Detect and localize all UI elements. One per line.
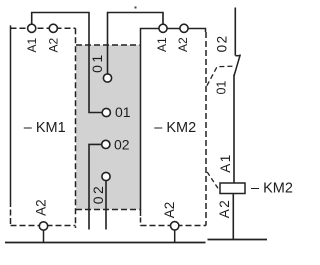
svg-text:A1: A1 bbox=[155, 37, 169, 52]
svg-text:02: 02 bbox=[215, 34, 230, 52]
KM2 left solid edge / socket right border bbox=[141, 29, 206, 217]
terminal circle KM2 A2 bottom bbox=[171, 222, 179, 230]
svg-text:01: 01 bbox=[115, 104, 131, 120]
coil return line bbox=[208, 239, 268, 241]
svg-text:A2: A2 bbox=[162, 202, 177, 219]
wire KM1 A2 to bus bbox=[43, 230, 45, 242]
svg-text:02: 02 bbox=[90, 184, 106, 205]
KM1 left edge (dashed part) bbox=[10, 201, 12, 226]
socket module gray body bbox=[76, 45, 141, 210]
wire KM2 A2 to bus bbox=[174, 230, 176, 243]
svg-text:– KM1: – KM1 bbox=[24, 120, 66, 136]
KM2 bottom dashed edge bbox=[141, 225, 207, 227]
svg-text:01: 01 bbox=[89, 52, 105, 73]
KM2 left edge lower dash bbox=[140, 218, 142, 226]
svg-text:A2: A2 bbox=[47, 38, 61, 53]
aux contact moving blade bbox=[234, 55, 240, 77]
contactor KM2 enclosure bbox=[141, 29, 207, 226]
control wire lower (blade to coil) bbox=[233, 75, 235, 184]
aux contact fixed seat stroke bbox=[235, 55, 240, 57]
stray dot above wire bbox=[135, 7, 137, 9]
svg-text:A2: A2 bbox=[217, 199, 232, 219]
svg-text:– KM2: – KM2 bbox=[251, 181, 293, 197]
terminal circle KM2 A2 bbox=[180, 24, 188, 32]
wire contact 01 upper terminal to KM2-A1 bbox=[108, 13, 164, 75]
terminal circle KM1 A1 bbox=[28, 24, 36, 32]
svg-text:02: 02 bbox=[114, 137, 130, 153]
svg-text:A1: A1 bbox=[25, 38, 39, 53]
mechanical linkage to aux contact (dashed) bbox=[207, 66, 233, 86]
bottom supply bus bbox=[5, 242, 206, 244]
KM2 right dashed edge bbox=[205, 32, 207, 226]
socket module top dashed edge bbox=[76, 44, 140, 46]
socket contact 02 upper terminal circle bbox=[102, 140, 110, 148]
terminal circle KM1 A2 bottom bbox=[39, 222, 47, 230]
contactor KM1 enclosure dashed box bbox=[11, 25, 76, 228]
KM1 left edge (solid part) bbox=[10, 25, 12, 201]
KM1 top dashed edge bbox=[11, 27, 76, 29]
KM1 right dashed edge bbox=[75, 28, 77, 228]
svg-text:A1: A1 bbox=[218, 153, 233, 173]
svg-text:A2: A2 bbox=[34, 199, 49, 216]
svg-text:01: 01 bbox=[214, 81, 228, 95]
mechanical linkage to coil (dashed) bbox=[207, 172, 220, 189]
coil KM2 bbox=[220, 183, 245, 194]
wire coil A2 to return line bbox=[232, 194, 234, 240]
terminal circle KM2 A1 bbox=[159, 24, 167, 32]
terminal circle KM1 A2 bbox=[49, 24, 57, 32]
socket module bottom dashed edge bbox=[76, 209, 140, 211]
wire socket 02 upper terminal going down bbox=[89, 144, 102, 229]
svg-text:– KM2: – KM2 bbox=[154, 120, 196, 136]
KM1 bottom dashed edge bbox=[11, 225, 76, 227]
control wire upper (to aux contact) bbox=[234, 8, 236, 56]
wire KM1-A1 to contact 01 lower terminal bbox=[32, 13, 103, 113]
socket contact 01 upper terminal circle bbox=[103, 74, 111, 82]
socket contact 02 lower terminal circle bbox=[102, 172, 110, 180]
socket contact 01 lower terminal circle bbox=[102, 108, 110, 116]
svg-text:A2: A2 bbox=[176, 37, 190, 52]
wire socket 02 lower terminal going down bbox=[105, 181, 107, 230]
